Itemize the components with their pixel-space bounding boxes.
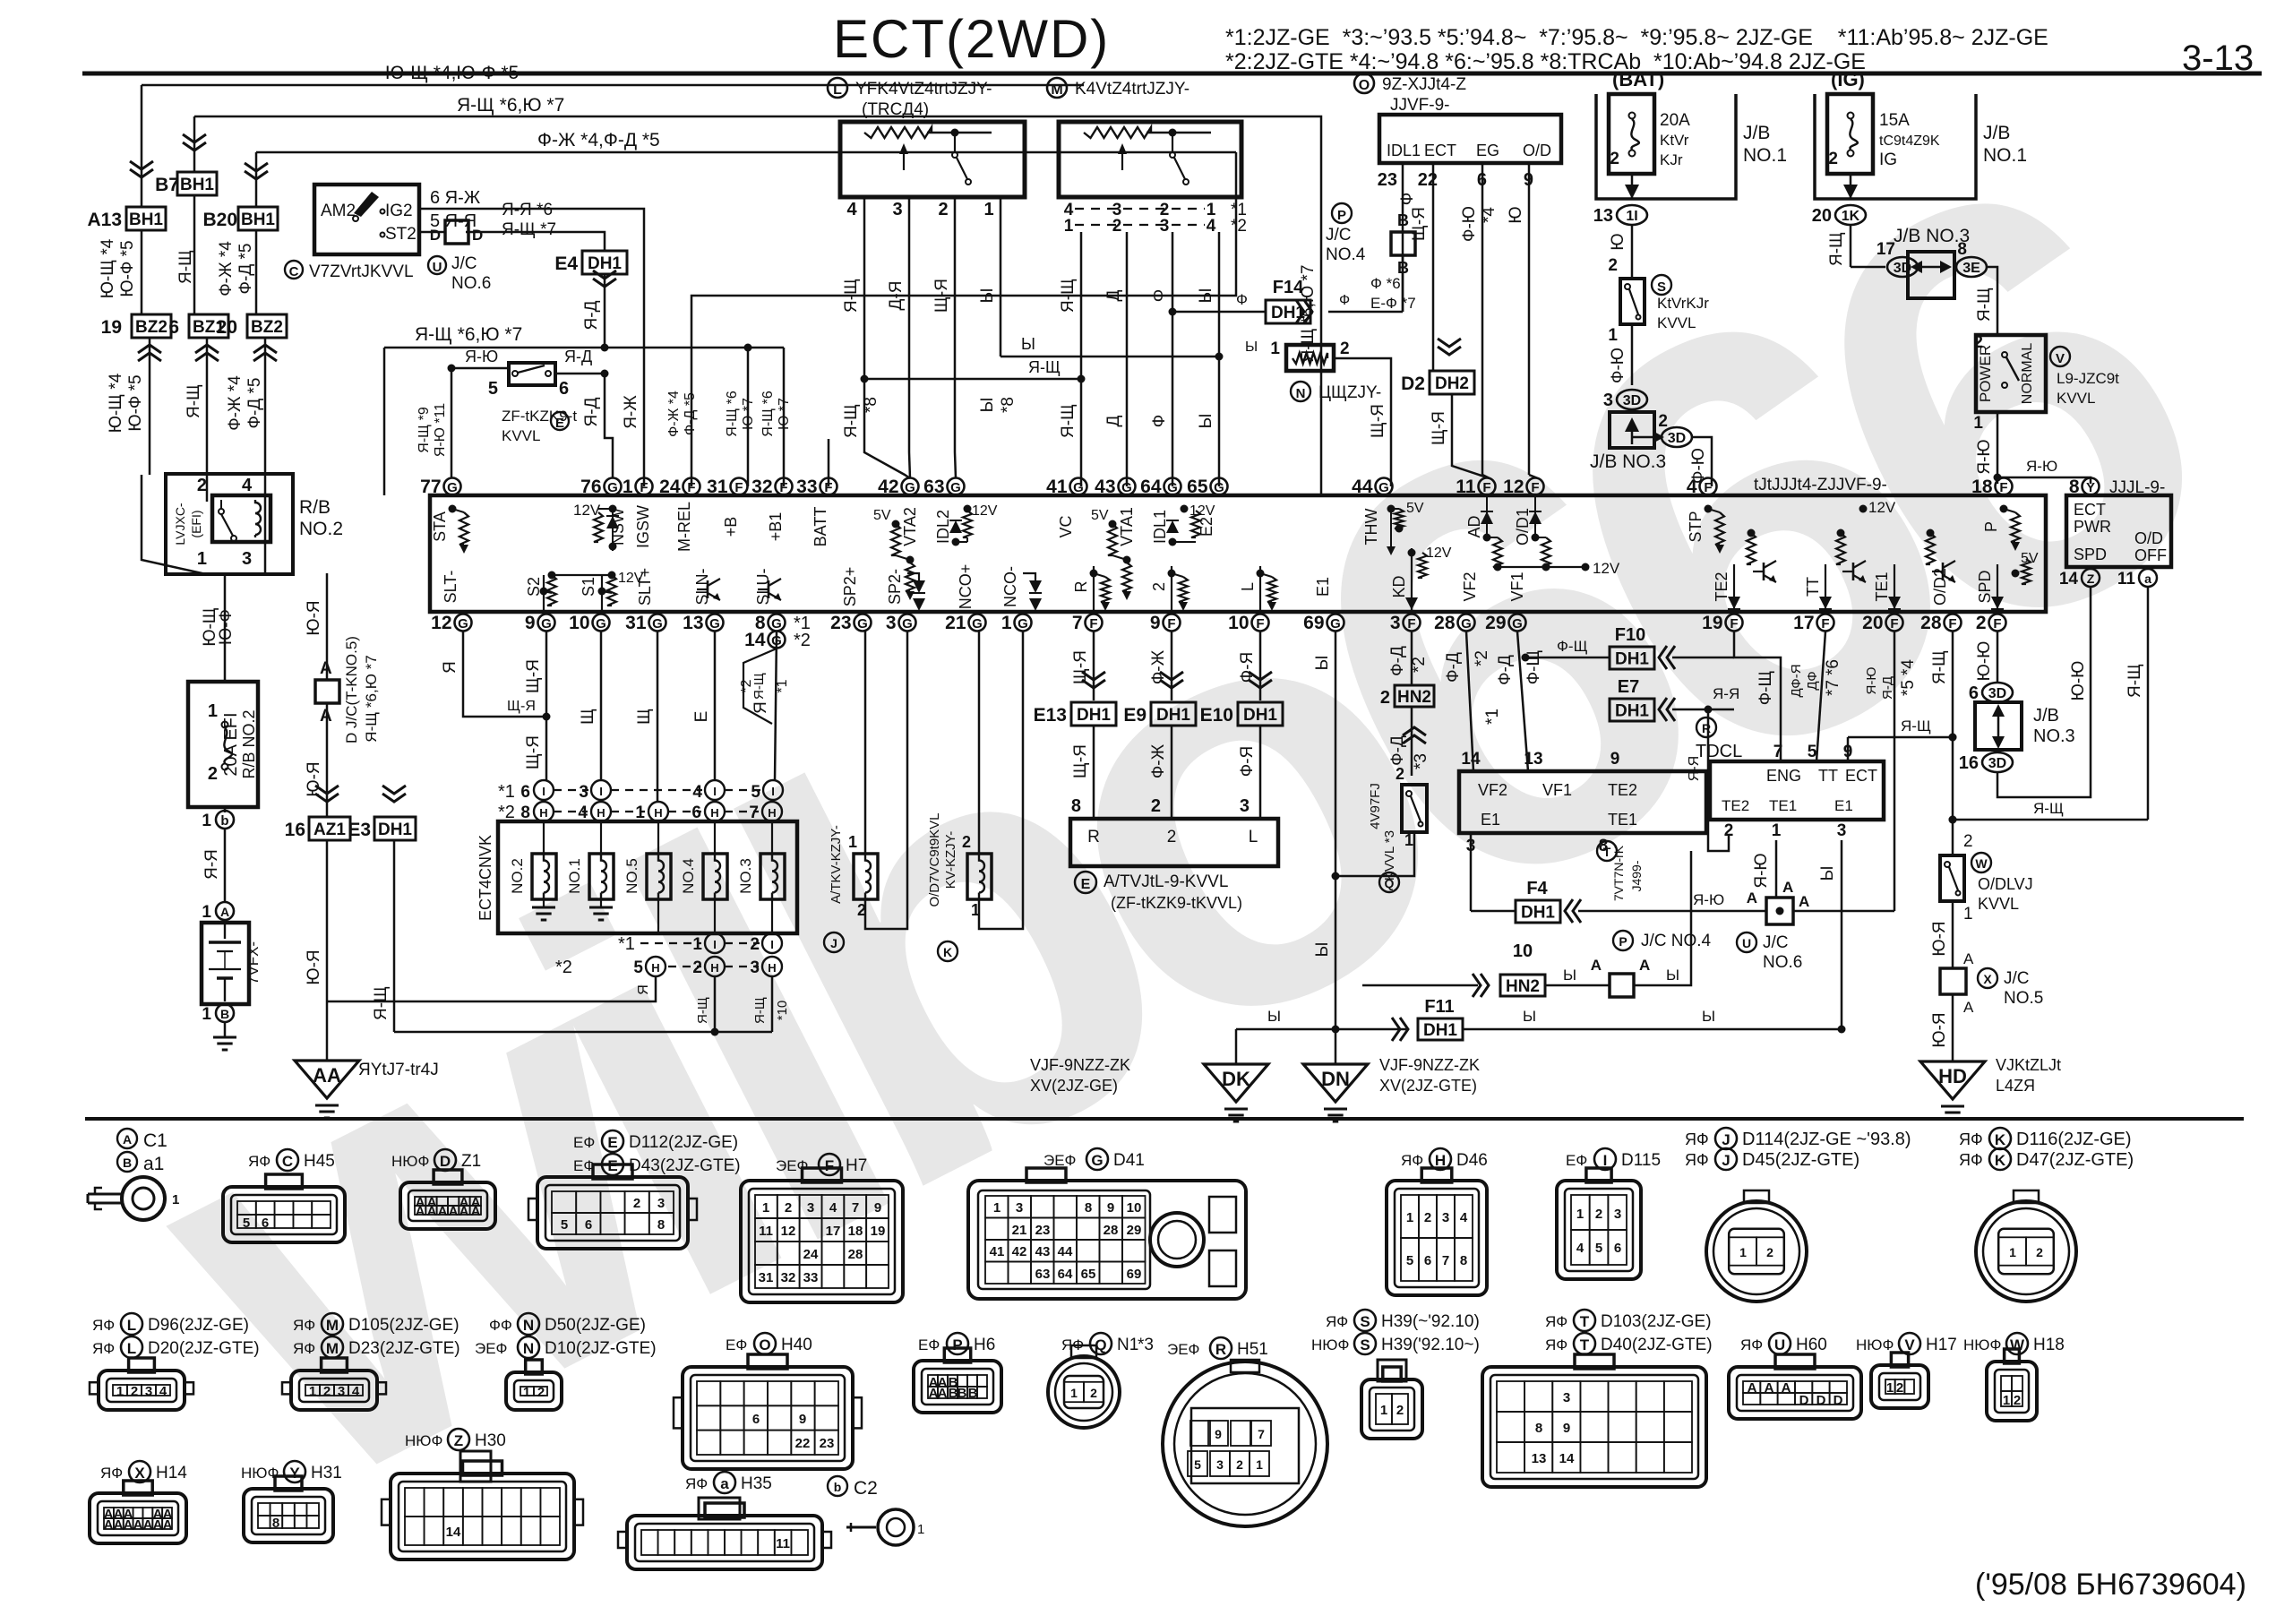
- wire to 32F: [783, 348, 786, 486]
- svg-text:TE1: TE1: [1608, 811, 1637, 829]
- svg-text:D46: D46: [1456, 1151, 1488, 1170]
- svg-text:F: F: [779, 480, 787, 495]
- svg-text:DN: DN: [1321, 1068, 1350, 1090]
- svg-text:НЮФ: НЮФ: [1856, 1336, 1894, 1353]
- wire from relay pin1 diagonal: [142, 475, 206, 574]
- svg-text:2: 2: [1380, 688, 1390, 708]
- svg-text:12V: 12V: [618, 571, 644, 586]
- sensor L サブスロツトルポジシヨンセンサー: [828, 78, 992, 119]
- svg-text:*2: *2: [1410, 657, 1429, 673]
- svg-text:11: 11: [759, 1224, 773, 1239]
- svg-text:A: A: [1963, 999, 1974, 1016]
- svg-text:Y: Y: [289, 1465, 300, 1482]
- connector U H60: [1740, 1336, 1763, 1353]
- svg-text:Я-Щ: Я-Щ: [751, 673, 767, 700]
- wire NSW 黒-白: [451, 367, 509, 370]
- svg-text:41: 41: [1046, 477, 1068, 497]
- svg-text:a: a: [2144, 571, 2151, 586]
- wires TDCL bottom: [1775, 840, 1778, 898]
- svg-text:Щ: Щ: [579, 709, 597, 725]
- svg-text:VF1: VF1: [1508, 571, 1526, 601]
- svg-text:44: 44: [1058, 1244, 1073, 1259]
- svg-text:D J/C(T-KNO.5): D J/C(T-KNO.5): [343, 636, 360, 743]
- svg-text:3: 3: [1614, 1207, 1621, 1222]
- svg-text:M: M: [1051, 82, 1062, 98]
- svg-text:2: 2: [1963, 832, 1973, 851]
- svg-text:Ю-Щ *4: Ю-Щ *4: [107, 373, 125, 433]
- svg-text:ЯФ: ЯФ: [293, 1317, 315, 1334]
- svg-text:Ф-Д: Ф-Д: [1496, 655, 1515, 685]
- svg-text:NCO-: NCO-: [1001, 566, 1019, 607]
- svg-text:F14: F14: [1273, 278, 1304, 297]
- svg-text:Я-Щ: Я-Щ: [842, 279, 861, 313]
- svg-text:2: 2: [1167, 828, 1177, 846]
- svg-text:XV(2JZ-GTE): XV(2JZ-GTE): [1379, 1077, 1477, 1095]
- ECU inner AD/OD1 diodes: [1481, 511, 1493, 524]
- svg-text:9: 9: [1107, 1200, 1114, 1216]
- svg-text:M: M: [326, 1317, 339, 1334]
- svg-text:Я-Щ: Я-Щ: [1827, 232, 1846, 266]
- svg-text:2: 2: [1976, 613, 1987, 633]
- svg-text:7: 7: [1258, 1427, 1265, 1441]
- node 2 3D right: [1662, 427, 1692, 447]
- svg-text:Ы: Ы: [1818, 866, 1837, 881]
- wire 2F SPD to 3D: [1997, 632, 1999, 683]
- ECU inner SP2- NCO- diodes: [913, 580, 925, 593]
- svg-text:77: 77: [420, 477, 441, 497]
- svg-text:Ф-Щ: Ф-Щ: [1557, 638, 1588, 655]
- svg-text:NO.4: NO.4: [680, 858, 697, 894]
- main relay R/B NO.2: [166, 474, 343, 574]
- svg-text:19: 19: [871, 1224, 886, 1239]
- svg-text:12V: 12V: [1426, 546, 1452, 561]
- svg-text:Я-Щ: Я-Щ: [372, 986, 391, 1020]
- svg-text:I: I: [713, 938, 717, 951]
- svg-text:Ф-Я: Ф-Я: [1238, 746, 1257, 778]
- svg-text:13: 13: [1532, 1451, 1547, 1466]
- svg-text:H: H: [768, 961, 776, 975]
- connector R H51: [1167, 1341, 1199, 1358]
- svg-text:A: A: [133, 1517, 143, 1533]
- svg-text:1: 1: [1608, 326, 1618, 345]
- svg-text:NO.6: NO.6: [1763, 953, 1802, 972]
- svg-text:ЯФ: ЯФ: [1740, 1336, 1763, 1353]
- connector B7 BH1: [155, 172, 217, 195]
- svg-text:2: 2: [1396, 1403, 1404, 1418]
- connector F14 DH1: [1266, 278, 1312, 323]
- wire E4 to 76G 黒-黄: [604, 274, 606, 348]
- svg-text:Я-Ю: Я-Ю: [1752, 853, 1771, 888]
- svg-text:H40: H40: [781, 1336, 812, 1354]
- wire 黒-赤*6,白*7 run: [194, 116, 1321, 495]
- svg-text:B: B: [958, 1386, 967, 1401]
- svg-text:16: 16: [285, 820, 305, 840]
- svg-text:Я-Д: Я-Д: [1880, 676, 1895, 700]
- svg-text:9Z-XJJt4-Z: 9Z-XJJt4-Z: [1382, 75, 1466, 94]
- ECU inner resistor STA: [449, 505, 457, 513]
- label intake manifold GE: [1030, 1056, 1130, 1095]
- svg-text:2: 2: [1150, 582, 1168, 591]
- connector K D116/D47: [1959, 1130, 1983, 1148]
- svg-text:31: 31: [759, 1270, 774, 1285]
- wire 3D to Z: [1997, 587, 2091, 797]
- svg-text:7VT7N-rK: 7VT7N-rK: [1611, 845, 1626, 901]
- svg-text:A: A: [1799, 893, 1809, 910]
- svg-text:G: G: [1091, 1152, 1103, 1169]
- svg-text:J/B NO.3: J/B NO.3: [1590, 451, 1666, 472]
- connector E D112/D43: [573, 1134, 595, 1151]
- svg-text:3: 3: [145, 1384, 152, 1399]
- svg-text:E13: E13: [1034, 705, 1067, 726]
- label E A/T indicator: [1075, 872, 1242, 912]
- svg-text:Ю-Ю: Ю-Ю: [2069, 661, 2088, 701]
- svg-text:Я-Ю: Я-Ю: [1864, 667, 1879, 695]
- svg-text:Ф-Ж *4: Ф-Ж *4: [226, 375, 245, 431]
- svg-text:H: H: [710, 806, 718, 820]
- junction P J/C NO.4: [1326, 203, 1415, 277]
- node 6 3D: [1982, 683, 2013, 702]
- svg-text:KV-KZJY-: KV-KZJY-: [943, 831, 958, 889]
- connector W H18: [1963, 1336, 2001, 1353]
- svg-text:A: A: [427, 1204, 437, 1219]
- svg-text:5V: 5V: [1091, 508, 1109, 523]
- svg-text:1: 1: [993, 1200, 1001, 1216]
- solenoid connector H row: [498, 802, 782, 822]
- svg-text:5V: 5V: [1406, 501, 1424, 516]
- wire to 31F: [747, 348, 750, 486]
- connector P H6: [918, 1336, 940, 1353]
- svg-text:Я-Я *6: Я-Я *6: [502, 201, 553, 219]
- svg-text:6: 6: [1614, 1241, 1621, 1256]
- junction box J/B NO.3 stop: [1590, 412, 1666, 472]
- svg-text:H45: H45: [304, 1152, 335, 1171]
- svg-text:13: 13: [1524, 750, 1542, 769]
- svg-text:*2: *2: [1231, 217, 1247, 236]
- svg-text:D: D: [430, 227, 441, 244]
- svg-text:28: 28: [1104, 1223, 1119, 1238]
- svg-text:Щ-Я: Щ-Я: [1071, 744, 1090, 778]
- wire 緑 to F14 DH1: [1169, 308, 1177, 316]
- svg-text:J: J: [830, 936, 837, 950]
- svg-text:O/D2: O/D2: [1931, 568, 1949, 606]
- wire 9G down to 6I: [545, 632, 548, 781]
- connector Z H30: [405, 1432, 442, 1449]
- title ECT(2WD): [833, 9, 1110, 69]
- svg-text:B: B: [123, 1156, 132, 1170]
- connector 16 AZ1: [285, 786, 350, 840]
- svg-text:*1: *1: [775, 679, 790, 692]
- svg-text:5: 5: [488, 379, 498, 399]
- svg-text:T: T: [1580, 1313, 1590, 1330]
- svg-text:F: F: [1993, 616, 2001, 632]
- svg-text:63: 63: [923, 477, 944, 497]
- wire relay to fuse: [224, 574, 227, 682]
- ECU engine control computer box: [430, 495, 2046, 612]
- node 11 a: [2139, 569, 2157, 587]
- svg-text:13: 13: [683, 613, 703, 633]
- wire 28G to VF box 14: [1466, 632, 1473, 771]
- svg-text:3: 3: [1837, 821, 1847, 840]
- wire A13 column: [141, 85, 143, 207]
- svg-text:NO.2: NO.2: [509, 858, 526, 894]
- svg-text:H: H: [1435, 1152, 1446, 1169]
- connector H D46: [1401, 1152, 1423, 1169]
- wire 29G to VF box 13: [1517, 632, 1528, 771]
- svg-text:Ы: Ы: [1702, 1008, 1715, 1025]
- svg-text:E4: E4: [554, 253, 578, 274]
- wire 20F TE1: [1894, 632, 1896, 911]
- svg-text:Ф: Ф: [1150, 415, 1169, 427]
- svg-text:T: T: [1580, 1336, 1590, 1353]
- ECU bottom pin row: [431, 613, 2005, 633]
- connector I D115: [1566, 1152, 1587, 1169]
- svg-text:*3: *3: [1138, 1336, 1154, 1354]
- connector Y H31: [241, 1465, 279, 1482]
- svg-text:G: G: [857, 616, 868, 632]
- ground AA triangle: [295, 1061, 439, 1118]
- svg-text:3D: 3D: [1988, 686, 2006, 701]
- svg-text:P: P: [1619, 934, 1627, 949]
- connector X H14: [100, 1465, 123, 1482]
- wire 28F O/D2: [1952, 632, 1954, 855]
- svg-text:A: A: [124, 1517, 133, 1533]
- svg-text:1: 1: [1404, 831, 1413, 849]
- svg-text:G: G: [1167, 480, 1178, 495]
- wire DK down: [1235, 1029, 1238, 1064]
- svg-text:I: I: [542, 785, 545, 798]
- svg-text:6: 6: [262, 1216, 269, 1231]
- svg-text:L: L: [127, 1317, 136, 1334]
- svg-text:TT: TT: [1818, 767, 1838, 785]
- svg-text:G: G: [596, 616, 606, 632]
- svg-text:3: 3: [886, 613, 897, 633]
- svg-text:KD: KD: [1390, 575, 1408, 597]
- node 16 3D: [1982, 752, 2013, 772]
- svg-text:DH1: DH1: [1423, 1021, 1457, 1040]
- wires T box bottom: [1470, 833, 1473, 911]
- label T ダイアグノーシスコネクター: [1597, 841, 1644, 901]
- svg-text:POWER: POWER: [1977, 345, 1994, 402]
- solenoid grounds NO.2 NO.1: [543, 899, 545, 907]
- O/D main switch W chain: [1949, 734, 1957, 742]
- svg-text:G: G: [709, 616, 720, 632]
- node B a1 label: [117, 1152, 137, 1172]
- svg-text:Щ-Я: Щ-Я: [1430, 411, 1448, 445]
- svg-text:ЭЕФ: ЭЕФ: [475, 1340, 507, 1357]
- svg-text:Я-Щ *6,Ю *7: Я-Щ *6,Ю *7: [363, 655, 380, 742]
- svg-text:ЕФ: ЕФ: [1566, 1152, 1587, 1169]
- svg-text:3: 3: [1390, 613, 1401, 633]
- svg-text:N: N: [523, 1340, 534, 1357]
- node 20 1K: [1835, 205, 1866, 225]
- svg-text:28: 28: [1434, 613, 1456, 633]
- svg-text:D43(2JZ-GTE): D43(2JZ-GTE): [629, 1156, 741, 1175]
- svg-text:G: G: [905, 480, 915, 495]
- svg-text:C2: C2: [854, 1478, 878, 1499]
- wire 緑-橙*4,緑-黄*5 run: [256, 151, 1236, 154]
- svg-text:2: 2: [1090, 1386, 1097, 1400]
- svg-text:Ф: Ф: [1236, 291, 1248, 308]
- junction box D J/C A-A: [315, 636, 380, 743]
- svg-text:Я-Ю: Я-Ю: [465, 348, 498, 365]
- svg-text:R/B NO.2: R/B NO.2: [240, 709, 258, 778]
- svg-text:3: 3: [242, 549, 252, 569]
- svg-text:F: F: [1407, 616, 1415, 632]
- svg-text:D114(2JZ-GE ~'93.8): D114(2JZ-GE ~'93.8): [1742, 1130, 1911, 1149]
- svg-text:U: U: [1742, 936, 1751, 950]
- svg-text:Я-Щ: Я-Щ: [1975, 288, 1994, 322]
- svg-text:B: B: [968, 1386, 978, 1401]
- svg-text:3: 3: [1442, 1210, 1449, 1225]
- svg-text:42: 42: [1012, 1244, 1027, 1259]
- svg-text:12V: 12V: [573, 502, 601, 519]
- wire 3F KD chain: [1411, 632, 1413, 685]
- svg-text:A: A: [1765, 1380, 1774, 1396]
- svg-text:ЦЩZJY-: ЦЩZJY-: [1318, 383, 1381, 402]
- svg-text:14: 14: [2059, 570, 2079, 589]
- svg-text:BH1: BH1: [241, 211, 275, 229]
- svg-text:DH1: DH1: [378, 821, 412, 839]
- svg-text:BH1: BH1: [180, 176, 214, 194]
- svg-text:4V97FJ: 4V97FJ: [1368, 783, 1383, 829]
- svg-text:20: 20: [1862, 613, 1883, 633]
- svg-text:76: 76: [580, 477, 601, 497]
- svg-text:*8: *8: [999, 397, 1018, 413]
- svg-text:DH1: DH1: [1615, 650, 1649, 669]
- svg-text:F: F: [825, 1157, 834, 1174]
- svg-text:3: 3: [1563, 1390, 1570, 1405]
- svg-text:ECT: ECT: [2074, 501, 2106, 519]
- svg-text:8: 8: [1071, 796, 1081, 816]
- connector N D50/D10: [489, 1317, 512, 1334]
- wires below BZ row: [149, 338, 151, 475]
- svg-text:DH1: DH1: [1615, 702, 1649, 721]
- svg-text:3: 3: [1240, 796, 1250, 816]
- svg-text:VC: VC: [1057, 515, 1075, 537]
- svg-text:Ф-Ж *4: Ф-Ж *4: [666, 391, 682, 437]
- svg-text:ЕФ: ЕФ: [573, 1134, 595, 1151]
- svg-text:Я-Щ: Я-Щ: [695, 997, 710, 1024]
- svg-text:NO.1: NO.1: [566, 858, 583, 894]
- svg-text:VJF-9NZZ-ZK: VJF-9NZZ-ZK: [1030, 1056, 1130, 1074]
- svg-text:a1: a1: [143, 1154, 164, 1174]
- svg-text:24: 24: [659, 477, 681, 497]
- svg-text:KtVrKJr: KtVrKJr: [1657, 295, 1709, 312]
- svg-text:18: 18: [1971, 477, 1993, 497]
- svg-text:ЕФ: ЕФ: [918, 1336, 940, 1353]
- wire 13G down to 6H: [714, 632, 717, 781]
- svg-text:23: 23: [820, 1436, 835, 1451]
- svg-text:A: A: [153, 1517, 163, 1533]
- svg-text:NO.1: NO.1: [1983, 145, 2027, 166]
- svg-text:29: 29: [1127, 1223, 1142, 1238]
- svg-text:2: 2: [1896, 1380, 1903, 1396]
- svg-text:TE1: TE1: [1769, 797, 1797, 814]
- svg-text:DK: DK: [1222, 1068, 1250, 1090]
- svg-text:1: 1: [1772, 821, 1782, 840]
- svg-text:IGSW: IGSW: [634, 505, 652, 548]
- svg-text:1: 1: [1406, 1210, 1413, 1225]
- svg-text:5: 5: [1808, 743, 1817, 761]
- svg-text:H7: H7: [846, 1156, 867, 1175]
- wire ST2 5 黒-青: [419, 231, 445, 234]
- svg-text:ENG: ENG: [1766, 767, 1801, 785]
- wire TDCL ECT to 28F: [1848, 736, 1953, 739]
- svg-text:H18: H18: [2033, 1336, 2065, 1354]
- svg-text:1K: 1K: [1842, 209, 1860, 224]
- svg-text:3: 3: [1603, 391, 1613, 410]
- svg-text:F: F: [1482, 480, 1490, 495]
- svg-text:A: A: [163, 1517, 173, 1533]
- svg-text:J/C: J/C: [451, 254, 477, 273]
- svg-text:F: F: [640, 480, 648, 495]
- svg-text:*2: *2: [498, 803, 515, 822]
- header notes: [1225, 25, 2254, 78]
- svg-text:O: O: [1359, 78, 1370, 93]
- wires J sensor: [864, 632, 867, 854]
- svg-text:9: 9: [1843, 743, 1853, 761]
- svg-text:2: 2: [1236, 1457, 1243, 1472]
- wire 青-赤 horizontal y423: [864, 378, 1081, 381]
- svg-text:BH1: BH1: [129, 211, 163, 229]
- svg-text:H: H: [768, 806, 776, 820]
- svg-text:tJtJJJt4-ZJJVF-9-: tJtJJJt4-ZJJVF-9-: [1754, 476, 1887, 494]
- svg-text:3: 3: [1016, 1200, 1023, 1216]
- svg-text:A: A: [416, 1204, 425, 1219]
- svg-text:Щ-Я: Щ-Я: [1369, 404, 1387, 438]
- svg-text:T: T: [1603, 845, 1611, 859]
- svg-text:2: 2: [537, 1385, 545, 1400]
- svg-text:64: 64: [1058, 1267, 1073, 1282]
- svg-text:Ю: Ю: [1609, 233, 1627, 250]
- svg-text:D2: D2: [1401, 374, 1425, 394]
- wires 黒-赤 from 2H 3H to ground bus: [714, 976, 717, 1032]
- svg-text:Е-Ф *7: Е-Ф *7: [1370, 295, 1416, 312]
- wires K sensor: [978, 632, 981, 854]
- svg-text:XV(2JZ-GE): XV(2JZ-GE): [1030, 1077, 1118, 1095]
- svg-text:ЯФ: ЯФ: [92, 1317, 115, 1334]
- svg-text:*2: *2: [794, 631, 811, 650]
- svg-text:A: A: [1748, 1380, 1757, 1396]
- svg-text:65: 65: [1187, 477, 1208, 497]
- svg-text:4: 4: [1460, 1210, 1468, 1225]
- svg-text:2: 2: [131, 1384, 138, 1399]
- svg-text:S: S: [1360, 1313, 1370, 1330]
- svg-text:14: 14: [744, 630, 766, 650]
- ECU inner STP resistor: [1705, 505, 1713, 513]
- cruise control computer O: [1354, 73, 1466, 115]
- svg-text:R: R: [1702, 721, 1711, 735]
- svg-text:F: F: [1531, 480, 1539, 495]
- svg-text:J/B: J/B: [1743, 123, 1770, 143]
- R TDCL box ENG TT ECT: [1696, 717, 1742, 761]
- svg-text:Я-Щ: Я-Щ: [1028, 358, 1061, 376]
- svg-text:HD: HD: [1938, 1065, 1967, 1087]
- svg-text:A: A: [220, 905, 229, 919]
- svg-text:33: 33: [796, 477, 817, 497]
- connector 10 HN2: [1362, 984, 1478, 987]
- svg-text:I: I: [713, 785, 717, 798]
- svg-text:1: 1: [208, 701, 218, 721]
- svg-text:Я-Ю *11: Я-Ю *11: [433, 403, 448, 457]
- svg-text:Я: Я: [441, 661, 459, 674]
- svg-text:23: 23: [1378, 170, 1397, 190]
- svg-text:ЯYtJ7-tr4J: ЯYtJ7-tr4J: [358, 1061, 439, 1079]
- svg-text:Я-Щ: Я-Щ: [185, 384, 203, 418]
- svg-text:NO.6: NO.6: [451, 274, 491, 293]
- svg-text:G: G: [1018, 616, 1028, 632]
- svg-text:D40(2JZ-GTE): D40(2JZ-GTE): [1601, 1336, 1713, 1354]
